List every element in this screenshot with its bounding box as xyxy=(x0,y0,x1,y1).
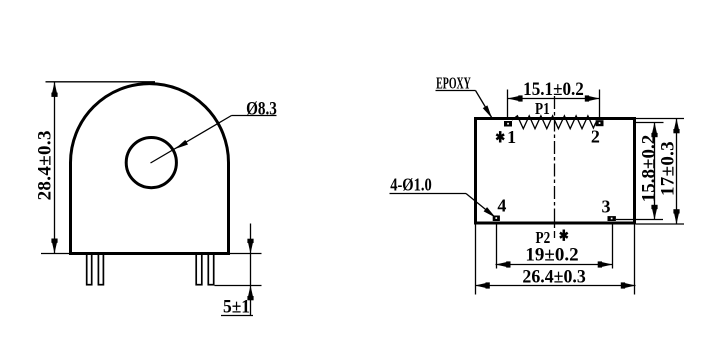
svg-text:2: 2 xyxy=(591,127,600,147)
svg-text:EPOXY: EPOXY xyxy=(436,74,471,92)
svg-text:15.1±0.2: 15.1±0.2 xyxy=(523,78,584,99)
svg-text:4: 4 xyxy=(497,195,506,215)
svg-text:28.4±0.3: 28.4±0.3 xyxy=(34,130,55,200)
svg-text:P1: P1 xyxy=(535,100,550,119)
svg-text:15.8±0.2: 15.8±0.2 xyxy=(639,135,660,202)
svg-text:26.4±0.3: 26.4±0.3 xyxy=(522,266,585,287)
svg-text:3: 3 xyxy=(602,196,611,216)
svg-text:19±0.2: 19±0.2 xyxy=(525,244,578,265)
svg-text:1: 1 xyxy=(507,127,516,147)
svg-text:Ø8.3: Ø8.3 xyxy=(246,98,277,119)
svg-text:4-Ø1.0: 4-Ø1.0 xyxy=(390,177,432,195)
svg-text:5±1: 5±1 xyxy=(223,296,250,317)
svg-text:17±0.3: 17±0.3 xyxy=(658,141,679,196)
